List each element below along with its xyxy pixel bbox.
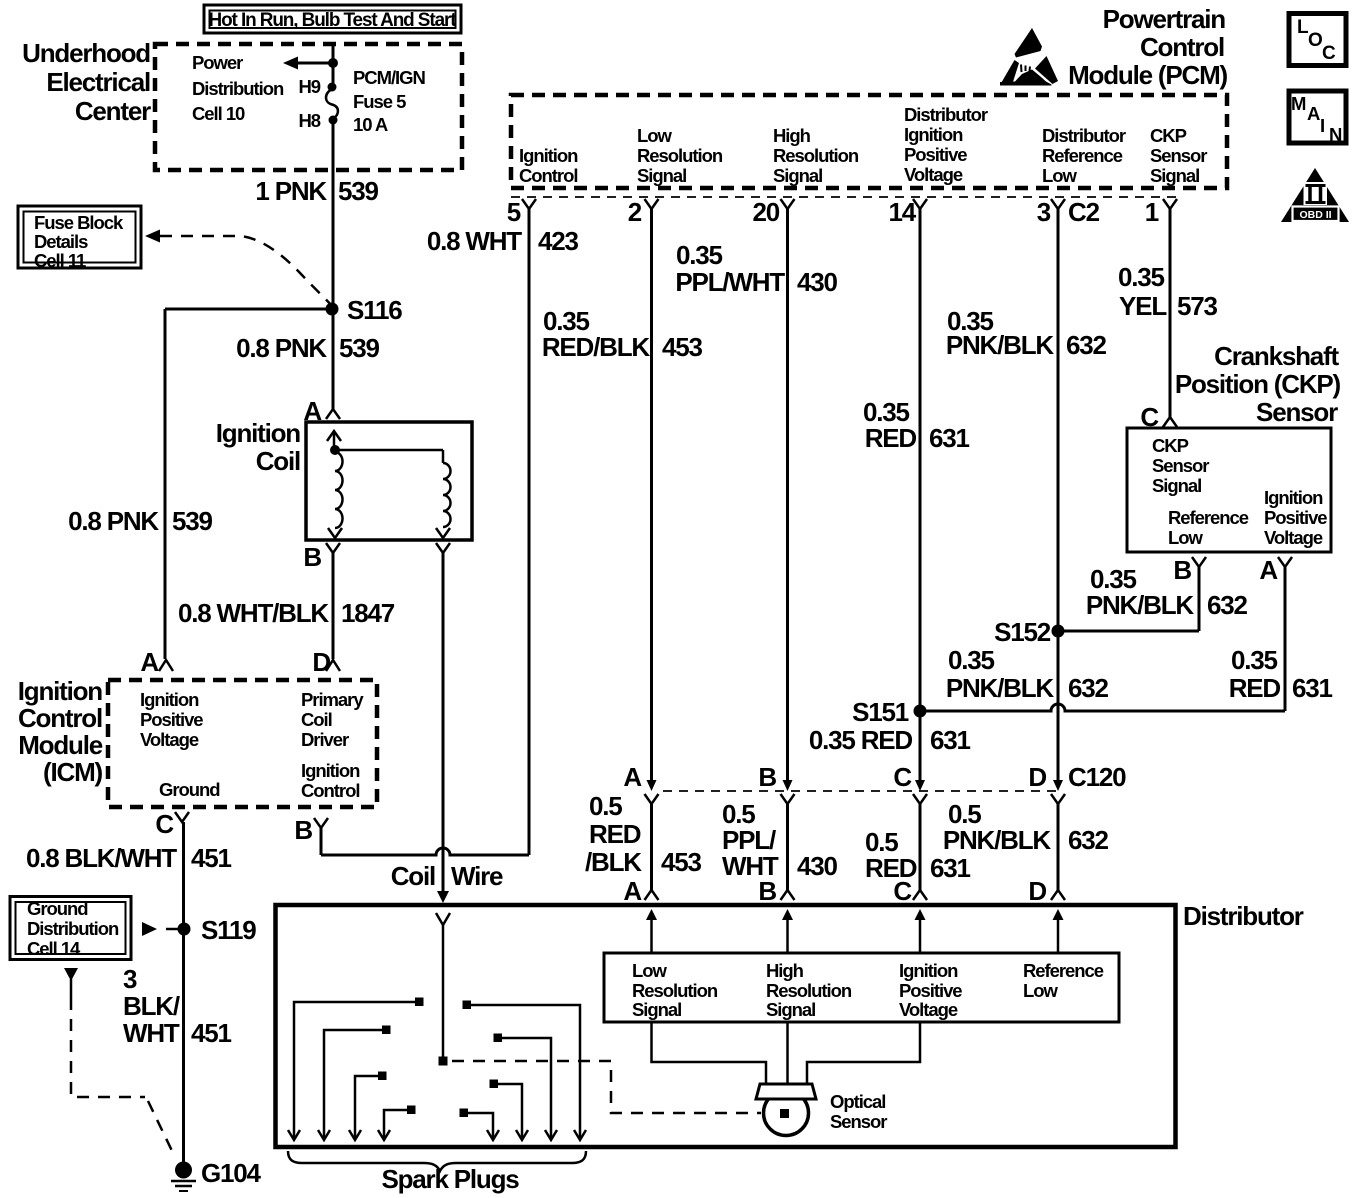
svg-text:(ICM): (ICM) [43,757,103,787]
svg-text:632: 632 [1068,673,1109,703]
label Ignition Positive Voltage (ICM) [140,689,203,750]
svg-text:Ground: Ground [27,898,88,919]
svg-text:Wire: Wire [451,861,503,891]
svg-text:D: D [312,647,330,677]
label Distributor Reference Low (PCM) [1042,125,1126,186]
label CKP Sensor Signal (sensor) [1152,435,1209,496]
spark plug wire 2 [318,1026,391,1141]
junction dot primary/secondary [330,445,340,455]
wire label 0.35 PNK/BLK 632 [946,306,1107,360]
svg-text:PNK/BLK: PNK/BLK [943,825,1052,855]
svg-text:Sensor: Sensor [1150,145,1207,166]
terminal H9 [298,76,336,97]
svg-text:CKP: CKP [1152,435,1189,456]
wire PCM pin 2 low resolution signal down to C120 A [650,209,653,782]
svg-text:1847: 1847 [341,598,395,628]
wire label 0.35 RED 631 (below S151) [809,725,971,755]
svg-text:Distributor: Distributor [1183,901,1304,931]
label Underhood Electrical Center [22,38,151,126]
pin D of ICM [312,647,340,677]
pin 2 [628,197,659,227]
wire ignition positive voltage to optical sensor [807,1022,920,1084]
svg-text:Ignition: Ignition [301,760,360,781]
pin 14 [888,197,927,227]
pin B of ignition coil [303,542,340,572]
svg-text:Ground: Ground [159,779,220,800]
dashed reference arrow to fuse block details [145,230,331,306]
label Low Resolution Signal (distributor) [632,960,718,1020]
svg-text:Signal: Signal [766,999,815,1020]
svg-text:RED/BLK: RED/BLK [542,332,651,362]
wire feed from top into fuse [332,44,335,90]
wire S116 down to ignition coil pin A [332,309,335,409]
label Distributor Ignition Positive Voltage (PCM) [904,104,988,185]
wire high resolution signal to optical sensor [786,1022,789,1084]
coil primary feed arrow inside [327,431,341,450]
svg-text:C: C [155,809,174,839]
distributor internal wire B with arrow [782,909,793,953]
label Ignition Positive Voltage (sensor) [1264,487,1327,548]
label Optical Sensor [830,1091,887,1132]
label Power Distribution Cell 10 [192,52,284,124]
svg-text:Signal: Signal [632,999,681,1020]
ground G104 [171,1158,262,1191]
label CKP Sensor Signal (PCM) [1150,125,1207,186]
wire label 1 PNK 539 [255,176,378,206]
svg-text:S151: S151 [852,697,909,727]
svg-text:Fuse 5: Fuse 5 [353,91,406,112]
svg-text:Resolution: Resolution [637,145,723,166]
svg-text:Ignition: Ignition [18,676,103,706]
pin B of CKP sensor [1173,555,1206,585]
svg-text:10 A: 10 A [353,114,388,135]
spark plug wire 8 [463,1001,587,1141]
wire label 0.5 RED/BLK 453 [585,791,702,877]
C120 pin C crossing [893,762,927,804]
pin C of ICM [155,809,189,839]
coil secondary output pin [436,543,450,553]
svg-text:Electrical: Electrical [46,67,150,97]
title Powertrain Control Module (PCM) [1068,4,1227,90]
svg-text:Low: Low [1023,980,1059,1001]
svg-text:0.8 PNK: 0.8 PNK [68,506,159,536]
wire label 0.8 PNK 539 below S116 [236,333,379,363]
wire coil B down to ICM pin D [332,553,335,659]
wire label 0.35 YEL 573 [1118,262,1218,321]
splice S151 [852,697,926,727]
svg-text:H8: H8 [298,110,320,131]
svg-text:Low: Low [637,125,673,146]
coil secondary winding [436,450,451,538]
svg-text:PCM/IGN: PCM/IGN [353,67,425,88]
rotor contact square [439,1057,448,1066]
svg-text:0.35: 0.35 [1231,645,1278,675]
distributor internal wire D with arrow [1053,909,1064,953]
svg-text:PNK/BLK: PNK/BLK [946,673,1055,703]
svg-text:Distributor: Distributor [904,104,988,125]
svg-text:Distribution: Distribution [27,918,119,939]
svg-text:Signal: Signal [637,165,686,186]
svg-text:C120: C120 [1068,762,1126,792]
svg-text:Power: Power [192,52,243,73]
svg-text:539: 539 [339,333,380,363]
svg-text:0.8 BLK/WHT: 0.8 BLK/WHT [26,843,177,873]
svg-text:Sensor: Sensor [1256,397,1338,427]
svg-text:Positive: Positive [140,709,203,730]
svg-text:1: 1 [1145,197,1159,227]
svg-text:G104: G104 [201,1158,262,1188]
svg-text:PNK/BLK: PNK/BLK [1086,590,1195,620]
svg-text:High: High [766,960,804,981]
wire label 0.35 RED 631 (CKP A) [1229,645,1333,703]
svg-text:Fuse Block: Fuse Block [34,212,124,233]
svg-text:Coil: Coil [301,709,332,730]
svg-text:A: A [623,762,642,792]
svg-text:Reference: Reference [1023,960,1104,981]
label Ignition Control (ICM) [301,760,360,801]
coil wire secondary down to distributor [442,553,445,891]
svg-text:Module: Module [18,730,103,760]
svg-text:Voltage: Voltage [1264,527,1323,548]
label High Resolution Signal (PCM) [773,125,859,186]
svg-text:CKP: CKP [1150,125,1187,146]
svg-text:Ignition: Ignition [904,124,963,145]
spark plug wire 6 [490,1080,529,1141]
svg-text:Signal: Signal [1152,475,1201,496]
pin 20 [752,197,794,227]
svg-text:Control: Control [1140,32,1224,62]
reference box Fuse Block Details Cell 11 [18,206,141,271]
svg-text:0.35: 0.35 [1118,262,1165,292]
wire label 0.35 PNK/BLK 632 (CKP B) [1086,564,1248,620]
svg-text:453: 453 [662,332,703,362]
connector C120 dashed line [663,790,1058,792]
svg-text:Reference: Reference [1042,145,1123,166]
C120 pin A crossing [623,762,658,804]
svg-text:Control: Control [18,703,102,733]
svg-text:Powertrain: Powertrain [1103,4,1226,34]
svg-text:451: 451 [191,843,232,873]
wire CKP B down to splice S152 [1058,567,1199,631]
wire ICM B to PCM pin 5 [321,209,529,855]
svg-text:A: A [1307,103,1320,124]
svg-text:B: B [1173,555,1191,585]
svg-text:A: A [623,876,642,906]
label PCM/IGN Fuse 5 10 A [353,67,425,135]
PCM dashed box [511,95,1227,188]
wire CKP A down to splice S151 [1284,567,1287,711]
svg-text:RED: RED [1229,673,1281,703]
wire label 0.8 PNK 539 left branch [68,506,212,536]
svg-text:Low: Low [1042,165,1078,186]
svg-text:Resolution: Resolution [632,980,718,1001]
svg-text:Voltage: Voltage [899,999,958,1020]
spark plugs brace [288,1151,586,1171]
svg-text:632: 632 [1066,330,1107,360]
svg-text:632: 632 [1207,590,1248,620]
svg-text:RED: RED [589,819,641,849]
svg-text:Sensor: Sensor [830,1111,887,1132]
svg-text:I: I [1320,115,1324,136]
terminal H8 [298,110,337,131]
distributor box [276,905,1176,1147]
svg-text:Driver: Driver [301,729,349,750]
svg-text:1 PNK: 1 PNK [255,176,327,206]
reference box Ground Distribution Cell 14 [10,897,131,960]
wire primary to secondary top [335,449,443,452]
distributor pin A [623,876,658,906]
svg-text:B: B [294,815,312,845]
svg-text:Voltage: Voltage [140,729,199,750]
svg-text:WHT: WHT [123,1018,180,1048]
svg-text:430: 430 [797,851,838,881]
svg-text:H9: H9 [298,76,320,97]
wire C120 A to distributor A [650,804,653,890]
svg-text:0.8 PNK: 0.8 PNK [236,333,327,363]
distributor pin D [1028,876,1065,906]
wire label 0.35 RED/BLK 453 [542,306,703,362]
label Coil Wire [391,861,503,891]
arrow from ground distribution to S119 [142,922,178,936]
svg-text:632: 632 [1068,825,1109,855]
svg-text:N: N [1329,124,1342,145]
svg-text:Crankshaft: Crankshaft [1214,341,1339,371]
svg-text:Control: Control [301,780,359,801]
svg-text:Reference: Reference [1168,507,1249,528]
label Ignition Control (PCM) [519,145,578,186]
svg-text:Distributor: Distributor [1042,125,1126,146]
wire ICM C down to G104 [182,822,185,1165]
svg-text:631: 631 [930,853,971,883]
wire S151 to CKP A with hop over reference low wire [920,704,1285,711]
svg-text:A: A [140,647,159,677]
svg-text:0.35: 0.35 [948,645,995,675]
svg-text:0.35 RED: 0.35 RED [809,725,913,755]
connector C2 thin dashed line under PCM [511,196,1176,198]
C120 pin B crossing [758,762,794,804]
svg-text:Cell 11: Cell 11 [34,250,86,271]
wire label 3 BLK/WHT 451 [123,964,232,1048]
pin A of CKP sensor [1259,555,1292,585]
svg-text:Resolution: Resolution [773,145,859,166]
spark plug wire 1 [288,998,424,1141]
svg-text:M: M [1291,93,1306,114]
CKP sensor box [1127,428,1331,552]
svg-text:RED: RED [865,423,917,453]
svg-text:D: D [1028,762,1046,792]
wire PCM pin 20 high resolution signal down to C120 B [786,209,789,782]
pin A of ignition coil [303,396,340,426]
distributor pin C [893,876,927,906]
svg-text:S119: S119 [201,915,256,945]
svg-text:3: 3 [123,964,137,994]
dashed rotor path to optical sensor [452,1061,761,1113]
label High Resolution Signal (distributor) [766,960,852,1020]
svg-text:631: 631 [929,423,970,453]
svg-text:Position (CKP): Position (CKP) [1175,369,1341,399]
svg-text:Resolution: Resolution [766,980,852,1001]
pin B of ICM [294,815,328,845]
svg-text:BLK/: BLK/ [123,991,180,1021]
svg-text:B: B [303,542,321,572]
label Reference Low (distributor) [1023,960,1104,1001]
pin 1 [1145,197,1177,227]
wire left branch down to ICM pin A [164,309,167,659]
svg-text:Coil: Coil [391,861,435,891]
optical sensor mount [756,1084,816,1099]
icon LOC box [1289,14,1346,66]
pin C of CKP sensor [1140,402,1177,432]
svg-text:0.8 WHT: 0.8 WHT [427,226,522,256]
junction dot at arrow tap [328,58,338,68]
svg-text:Voltage: Voltage [904,164,963,185]
svg-text:Details: Details [34,231,88,252]
svg-text:Hot In Run, Bulb Test And Star: Hot In Run, Bulb Test And Start [209,10,458,31]
wire PCM pin 1 CKP sensor signal down to CKP pin C [1169,209,1172,417]
icon MAIN box [1289,91,1346,145]
svg-text:0.35: 0.35 [676,240,723,270]
label Ignition Positive Voltage (distributor) [899,960,962,1020]
svg-text:Signal: Signal [773,165,822,186]
svg-text:0.8 WHT/BLK: 0.8 WHT/BLK [178,598,329,628]
pin A of ICM [140,647,173,677]
svg-text:20: 20 [752,197,779,227]
svg-text:Center: Center [75,96,151,126]
ignition coil U1 box [306,422,472,540]
svg-text:Ignition: Ignition [140,689,199,710]
icon OBD II triangle [1281,168,1349,222]
spark plug wire 3 [349,1072,387,1141]
wire label 0.8 WHT/BLK 1847 [178,598,395,628]
svg-text:Primary: Primary [301,689,364,710]
svg-text:Positive: Positive [904,144,967,165]
C120 pin D crossing and label [1028,762,1126,804]
svg-text:B: B [758,762,776,792]
svg-text:539: 539 [172,506,213,536]
svg-text:PNK/BLK: PNK/BLK [946,330,1055,360]
wire PCM pin 14 ignition positive voltage down to C120 C [919,209,922,782]
coil wire entry arrow into distributor [436,891,450,1057]
svg-text:14: 14 [888,197,916,227]
svg-text:Cell 10: Cell 10 [192,103,245,124]
svg-text:C: C [893,876,912,906]
spark plug wire 5 [460,1109,500,1141]
label Low Resolution Signal (PCM) [637,125,723,186]
label Ignition Coil [216,418,301,476]
wire C120 B to distributor B [786,804,789,890]
wire branch from S116 to left [165,308,332,311]
svg-text:Ignition: Ignition [216,418,301,448]
svg-text:Optical: Optical [830,1091,885,1112]
wire label 0.8 WHT 423 [427,226,579,256]
svg-text:Control: Control [519,165,577,186]
wire label 0.5 PNK/BLK 632 [943,799,1109,855]
svg-text:423: 423 [538,226,579,256]
pin 3 and connector C2 label [1037,197,1100,227]
svg-text:Low: Low [632,960,668,981]
svg-text:/BLK: /BLK [585,847,642,877]
svg-text:631: 631 [930,725,971,755]
svg-text:C: C [1322,43,1336,64]
distributor terminals label box [604,953,1119,1022]
spark plug wire 4 [378,1106,416,1141]
splice S119 [178,915,257,945]
svg-text:Module (PCM): Module (PCM) [1068,60,1227,90]
distributor internal wire A with arrow [646,909,657,953]
label Primary Coil Driver (ICM) [301,689,364,750]
svg-text:3: 3 [1037,197,1051,227]
svg-text:Ignition: Ignition [1264,487,1323,508]
svg-text:B: B [758,876,776,906]
svg-text:High: High [773,125,811,146]
svg-text:YEL: YEL [1119,291,1167,321]
svg-text:Underhood: Underhood [22,38,150,68]
label Ignition Control Module (ICM) [18,676,103,787]
svg-text:O: O [1308,30,1322,51]
svg-text:D: D [1028,876,1046,906]
dashed reference path to ground distribution cell 14 [64,968,174,1155]
svg-text:Positive: Positive [899,980,962,1001]
svg-text:539: 539 [338,176,379,206]
ICM dashed box [108,680,377,807]
distributor pin B [758,876,794,906]
svg-text:430: 430 [797,267,838,297]
svg-text:Signal: Signal [1150,165,1199,186]
svg-text:OBD II: OBD II [1299,209,1331,221]
wire C120 C to distributor C [919,804,922,890]
wire label 0.5 RED 631 [865,827,971,883]
svg-text:Ignition: Ignition [899,960,958,981]
wire label 0.35 RED 631 [863,397,970,453]
title Crankshaft Position (CKP) Sensor [1175,341,1341,427]
ESD sensitivity symbol [1000,28,1058,86]
distributor internal wire C with arrow [915,909,926,953]
svg-text:Distribution: Distribution [192,78,284,99]
svg-text:0.5: 0.5 [589,791,622,821]
coil primary winding [328,452,343,538]
wire C120 D to distributor D [1057,804,1060,890]
wire PCM pin 3 distributor reference low down to C120 D [1057,209,1060,782]
svg-text:Positive: Positive [1264,507,1327,528]
svg-text:Cell 14: Cell 14 [27,938,81,959]
svg-text:Low: Low [1168,527,1204,548]
spark plug wire 7 [494,1034,558,1141]
fuse PCM/IGN Fuse 5 element [326,89,338,119]
label Reference Low (sensor) [1168,507,1249,548]
svg-text:Spark Plugs: Spark Plugs [381,1164,519,1194]
svg-text:Sensor: Sensor [1152,455,1209,476]
svg-text:S152: S152 [994,617,1051,647]
optical sensor body [764,1091,809,1136]
svg-text:PPL/WHT: PPL/WHT [675,267,785,297]
svg-text:573: 573 [1177,291,1218,321]
optical sensor element [780,1109,789,1118]
svg-text:2: 2 [628,197,642,227]
splice S152 [994,617,1064,647]
header box Hot In Run, Bulb Test And Start [204,5,461,33]
arrow to power distribution [283,57,333,70]
svg-text:451: 451 [191,1018,232,1048]
wire label 0.35 PPL/WHT 430 [675,240,837,297]
svg-text:C: C [893,762,912,792]
svg-text:5: 5 [507,197,521,227]
svg-text:A: A [1259,555,1278,585]
svg-text:Ignition: Ignition [519,145,578,166]
svg-text:C2: C2 [1068,197,1100,227]
underhood electrical center dashed box [155,44,462,170]
svg-text:453: 453 [661,847,702,877]
wire label 0.8 BLK/WHT 451 [26,843,232,873]
